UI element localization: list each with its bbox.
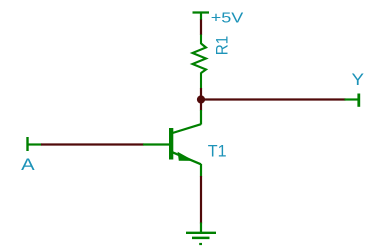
svg-text:+5V: +5V bbox=[211, 10, 244, 27]
wire emitter to ground bbox=[200, 176, 202, 224]
svg-text:T1: T1 bbox=[208, 142, 227, 161]
wire A to base bbox=[41, 143, 144, 145]
svg-text:R1: R1 bbox=[214, 36, 232, 56]
wire VCC to R1 bbox=[200, 20, 202, 36]
resistor R1 bbox=[193, 35, 207, 89]
svg-text:A: A bbox=[21, 155, 35, 174]
output terminal Y bbox=[345, 94, 359, 107]
wire R1 to collector node bbox=[200, 88, 202, 111]
power terminal +5V bbox=[193, 13, 210, 21]
ground bbox=[186, 223, 216, 245]
junction node bbox=[197, 95, 205, 103]
svg-text:Y: Y bbox=[352, 70, 365, 89]
transistor T1 bbox=[169, 110, 201, 177]
input terminal A bbox=[28, 137, 42, 151]
transistor T1 base pin bbox=[143, 143, 170, 145]
wire node to output Y bbox=[201, 98, 346, 100]
